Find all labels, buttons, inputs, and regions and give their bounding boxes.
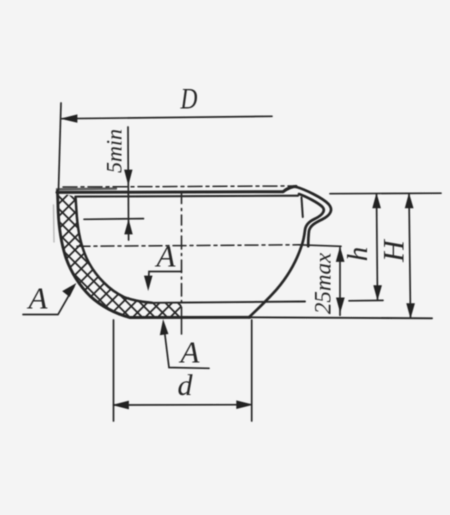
25max bottom arrowhead — [337, 298, 345, 312]
h bottom arrowhead — [374, 286, 382, 300]
d dimension line — [114, 404, 252, 406]
section arrow A bottom — [164, 324, 209, 368]
waterline solid extension to 25max — [299, 245, 341, 247]
H bottom arrowhead — [407, 304, 415, 318]
d right arrowhead — [237, 401, 252, 409]
25max dimension line — [339, 248, 341, 316]
right wall line — [249, 194, 324, 317]
bottom extension line — [250, 317, 432, 318]
bowl bottom inner line and h extension — [152, 302, 305, 303]
svg-text:25max: 25max — [311, 252, 336, 314]
5min up arrowhead — [125, 221, 132, 235]
d extension line left — [113, 320, 115, 421]
left wall outer line — [58, 191, 131, 318]
ghost scan line left of wall — [53, 205, 56, 242]
5min down arrowhead — [125, 170, 132, 184]
spout inner edge — [302, 198, 303, 218]
scan-merged dark band at left of rim — [57, 187, 116, 190]
left wall inner line — [76, 197, 153, 303]
h extension line segment — [349, 299, 383, 301]
H top arrowhead — [405, 194, 413, 208]
svg-text:D: D — [180, 82, 198, 115]
svg-text:A: A — [179, 335, 201, 370]
svg-text:A: A — [27, 281, 49, 316]
svg-text:h: h — [342, 247, 374, 262]
rim top line — [57, 186, 296, 192]
svg-text:H: H — [378, 238, 411, 263]
25max top arrowhead — [336, 248, 344, 262]
dimension D extension line — [59, 103, 62, 190]
leader arrow A left outer — [23, 287, 74, 315]
svg-text:d: d — [178, 369, 194, 402]
center section line — [181, 194, 183, 335]
H dimension line — [409, 194, 411, 318]
svg-text:A: A — [155, 239, 177, 274]
waterline dash-dot — [77, 245, 299, 247]
dimension D left arrowhead — [62, 115, 77, 122]
bowl left sectioned wall hatch fill — [58, 192, 182, 317]
5min dimension line — [127, 127, 130, 240]
svg-text:5min: 5min — [102, 129, 127, 173]
h dimension line — [377, 194, 378, 300]
d left arrowhead — [114, 401, 129, 409]
h top arrowhead — [373, 194, 381, 208]
spout outer curl — [283, 187, 331, 246]
rim axis dash-dot line — [63, 186, 294, 187]
bowl bottom outer line — [130, 316, 250, 319]
section arrow A top (inner) — [148, 272, 181, 288]
inner rim line — [77, 195, 298, 198]
rim level extension line right — [330, 192, 441, 195]
d extension line right — [251, 320, 253, 421]
5min reference line — [84, 218, 144, 221]
dimension D line — [62, 116, 272, 118]
